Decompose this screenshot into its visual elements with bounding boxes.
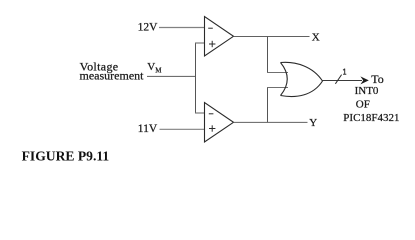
- svg-text:To: To: [371, 72, 384, 86]
- comparator U2: [205, 103, 234, 143]
- wire X branch to OR input: [267, 72, 288, 74]
- svg-text:12V: 12V: [138, 21, 159, 33]
- wire X branch down: [267, 37, 269, 73]
- arrowhead to INT0: [360, 76, 368, 84]
- wire Y branch up: [267, 88, 269, 123]
- bus width slash: [335, 75, 341, 84]
- svg-text:measurement: measurement: [80, 69, 145, 83]
- svg-text:FIGURE P9.11: FIGURE P9.11: [22, 149, 110, 164]
- bus width label 1: [343, 69, 346, 75]
- wire elbow to U2 - input: [195, 112, 205, 114]
- wire U2 output to Y: [234, 121, 308, 123]
- wire VM vertical bus: [195, 43, 197, 114]
- OR gate U3: [281, 63, 288, 96]
- svg-text:VM: VM: [147, 61, 162, 75]
- svg-text:11V: 11V: [138, 123, 158, 135]
- wire elbow to U1 + input: [195, 42, 205, 44]
- wire Y branch to OR input: [267, 87, 288, 89]
- wire U1 output to X: [234, 36, 310, 38]
- wire VM horizontal: [147, 75, 196, 77]
- svg-text:Y: Y: [309, 117, 317, 129]
- U1 plus sign: [209, 43, 215, 45]
- wire OR output: [323, 80, 363, 82]
- svg-text:OF: OF: [356, 98, 370, 110]
- svg-text:X: X: [312, 32, 320, 44]
- wire 12V to U1 inverting input: [159, 27, 205, 29]
- U2 minus sign: [209, 113, 214, 115]
- U2 plus sign: [209, 128, 215, 130]
- U1 minus sign: [208, 27, 213, 29]
- wire 11V to U2 + input: [160, 128, 205, 130]
- svg-text:INT0: INT0: [355, 85, 379, 97]
- comparator U1: [205, 17, 234, 57]
- svg-text:PIC18F4321: PIC18F4321: [343, 112, 399, 124]
